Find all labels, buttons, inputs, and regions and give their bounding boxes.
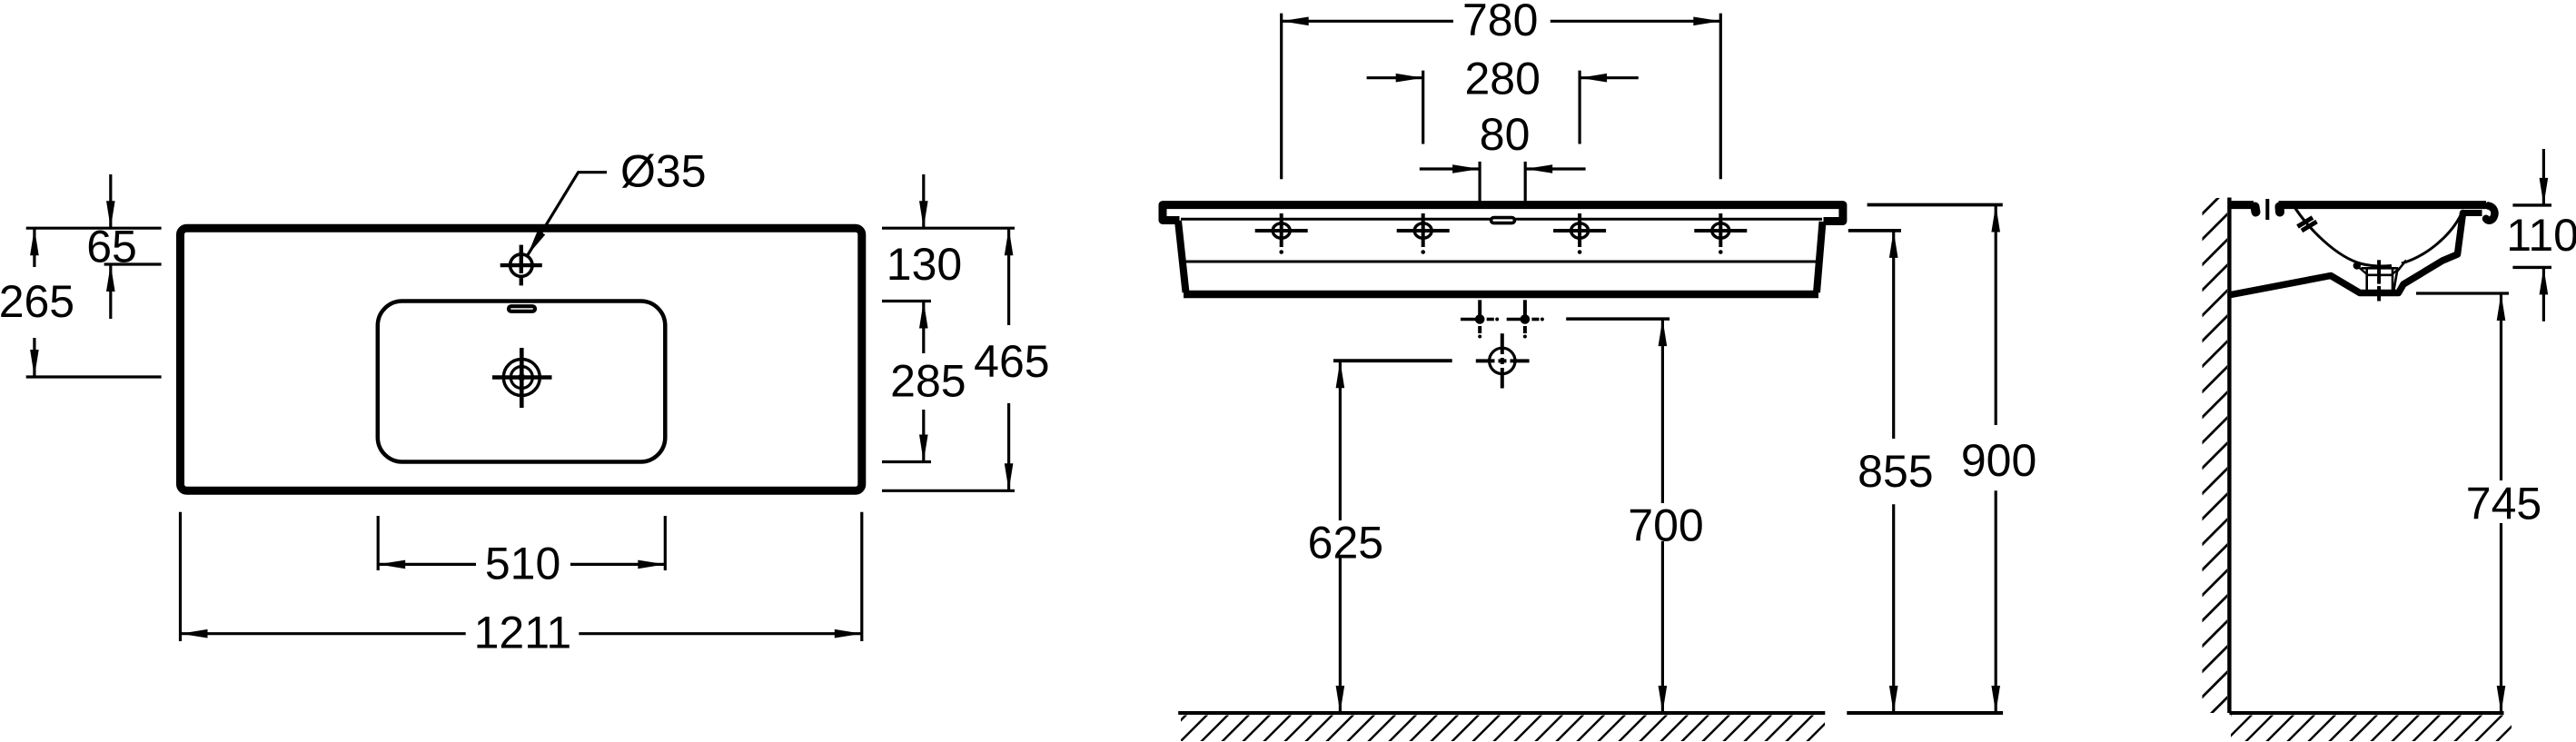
- overflow tick marks: [2298, 218, 2313, 227]
- floor line under basin: [1178, 711, 1825, 715]
- svg-text:280: 280: [1464, 54, 1540, 104]
- faucet hole top view: [500, 245, 542, 286]
- fixing bolt left: [1461, 300, 1499, 338]
- rim left cut rounded end: [2255, 207, 2256, 213]
- dim 900: [1868, 205, 2037, 714]
- svg-text:780: 780: [1462, 0, 1538, 45]
- floor hatching right view: [2231, 716, 2512, 742]
- basin inner edge thin line: [1184, 261, 1821, 263]
- apron inner thin line: [2394, 261, 2407, 291]
- svg-text:265: 265: [0, 276, 74, 327]
- faucet hole 1 front: [1255, 213, 1308, 254]
- faucet hole 3 front: [1553, 213, 1606, 254]
- dim 280: [1367, 54, 1639, 144]
- svg-text:625: 625: [1308, 517, 1383, 568]
- wall hatching: [2203, 198, 2228, 713]
- dim 1211 bottom: [181, 512, 862, 658]
- basin left wall front: [1178, 221, 1186, 292]
- hook to wall bar: [2465, 210, 2482, 216]
- faucet hole 4 front: [1694, 213, 1747, 254]
- basin rim front (thick with end hooks): [1163, 205, 1843, 222]
- dim 80: [1420, 109, 1586, 203]
- overflow slot front: [1491, 218, 1515, 223]
- svg-text:900: 900: [1961, 435, 2036, 486]
- basin bottom front: [1184, 291, 1818, 299]
- svg-text:285: 285: [890, 356, 966, 407]
- drain trap section: [2353, 260, 2401, 301]
- dim 780: [1282, 0, 1721, 179]
- dim 285 right: [882, 302, 966, 462]
- dim 510 bottom: [378, 516, 665, 589]
- svg-text:700: 700: [1628, 500, 1703, 551]
- dim 265 left: [0, 228, 162, 377]
- drain hole top view: [492, 348, 552, 408]
- wall line: [2227, 198, 2231, 714]
- rim section main part: [2279, 201, 2487, 209]
- svg-text:110: 110: [2506, 210, 2576, 261]
- svg-text:130: 130: [887, 239, 962, 290]
- svg-text:745: 745: [2466, 478, 2541, 529]
- svg-text:510: 510: [485, 538, 560, 589]
- dim 110: [2506, 149, 2576, 322]
- rim section left part: [2231, 201, 2254, 209]
- dim 855: [1848, 231, 1934, 713]
- basin rounded rect: [378, 302, 666, 462]
- svg-text:465: 465: [974, 336, 1049, 387]
- front apron and underside profile: [2231, 213, 2463, 295]
- countertop outline: [181, 228, 862, 490]
- svg-text:1211: 1211: [474, 607, 572, 658]
- dim 745: [2416, 293, 2541, 713]
- svg-text:Ø35: Ø35: [620, 146, 707, 197]
- basin right wall front: [1817, 222, 1823, 292]
- svg-text:855: 855: [1858, 446, 1933, 497]
- bowl inner curve: [2294, 207, 2462, 266]
- drain front: [1476, 333, 1530, 388]
- leader Ø35: [528, 146, 707, 256]
- floor hatching under basin: [1181, 716, 1825, 742]
- rim cut end blob: [2275, 207, 2285, 213]
- floor line under 855/900: [1847, 711, 2003, 715]
- dim 465 right: [882, 228, 1050, 490]
- dim 700: [1566, 319, 1704, 713]
- dim 65 left: [26, 174, 162, 319]
- floor line right view: [2229, 711, 2503, 715]
- front rolled hook curl: [2486, 206, 2494, 221]
- hanger slot thin tick: [2265, 199, 2269, 220]
- overflow slot top view: [509, 306, 535, 312]
- rim underside thin line: [1181, 218, 1822, 221]
- faucet hole 2 front: [1397, 213, 1450, 254]
- fixing bolt right: [1507, 300, 1544, 338]
- svg-text:80: 80: [1480, 109, 1531, 160]
- svg-text:65: 65: [86, 222, 137, 272]
- dim 130 right: [882, 174, 1015, 302]
- dim 625: [1308, 361, 1452, 713]
